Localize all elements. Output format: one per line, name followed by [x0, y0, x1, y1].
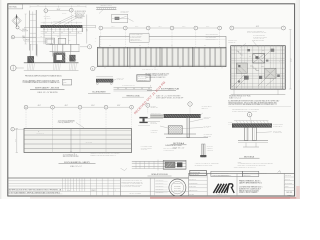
- svg-text:SEE NOTE 4 THIS SHT: SEE NOTE 4 THIS SHT: [130, 40, 141, 42]
- roof elevation bottom ticks: [104, 67, 106, 69]
- roof plan rectangle: [99, 36, 226, 47]
- keynote box: [62, 79, 71, 85]
- section BB base: [238, 140, 268, 142]
- svg-text:1 REV PER CITY: 1 REV PER CITY: [156, 192, 164, 194]
- canopy left vert dim: [25, 14, 27, 44]
- svg-text:D: D: [105, 107, 106, 109]
- svg-text:EQ: EQ: [109, 45, 111, 47]
- svg-text:SEE CIVIL FOR SITE INFO: SEE CIVIL FOR SITE INFO: [63, 156, 79, 158]
- revision grid: [61, 178, 63, 191]
- posts under beam: [43, 28, 45, 45]
- right plan below lines: [233, 89, 235, 94]
- svg-text:COLUMN: COLUMN: [204, 118, 210, 120]
- svg-text:B: B: [249, 114, 250, 116]
- logo diagonal bars: [213, 184, 229, 193]
- roof elevation joist lines: [101, 48, 103, 67]
- svg-text:12 OF 24: 12 OF 24: [287, 195, 292, 197]
- svg-text:FILE S21: FILE S21: [189, 193, 194, 195]
- footing block right: [70, 55, 76, 61]
- wire leader from bubble A: [15, 36, 37, 38]
- grade bubble: [10, 65, 16, 71]
- scan edge bottom pink tint: [30, 197, 150, 198]
- svg-text:(E) 4x12 DF: (E) 4x12 DF: [44, 16, 51, 18]
- vertical dim right of canopy: [86, 15, 88, 44]
- svg-text:EQ: EQ: [204, 45, 206, 47]
- svg-text:SIM: SIM: [69, 40, 71, 42]
- logo R stroke: [227, 184, 234, 193]
- svg-text:ROOF FRAMING PLAN: ROOF FRAMING PLAN: [161, 88, 180, 91]
- canopy detail dim bubbles: [44, 9, 48, 13]
- leader diagonal: [52, 15, 74, 25]
- jamb vertical element: [202, 144, 203, 157]
- approval header box: [211, 171, 243, 176]
- canopy second dim row: [30, 6, 86, 8]
- small mark under title: [121, 168, 125, 170]
- canopy extra horizontals left: [24, 37, 46, 39]
- designer column: [188, 173, 190, 196]
- svg-text:CHECKED RJM: CHECKED RJM: [189, 182, 197, 184]
- south elev grid stems: [25, 109, 27, 128]
- grid bubble left A: [11, 36, 14, 39]
- grade line: [24, 62, 79, 64]
- pe seal inner: [171, 181, 184, 194]
- section BB hatch above beam: [236, 121, 238, 124]
- scan edge right: [296, 0, 300, 199]
- schedule mini box above seal: [190, 170, 207, 175]
- svg-text:40'-0": 40'-0": [117, 105, 121, 107]
- svg-text:▽: ▽: [38, 131, 39, 133]
- section BB bubble: [247, 112, 252, 117]
- left column pair: [29, 11, 31, 51]
- south elev dim line: [28, 106, 50, 108]
- svg-text:40'-0": 40'-0": [65, 105, 69, 107]
- right plan extra diagonals: [262, 51, 270, 59]
- right plan leaders: [252, 40, 258, 47]
- lower beam grid: [50, 43, 80, 45]
- svg-text:HSS: HSS: [237, 51, 239, 53]
- title strip rows left: [8, 180, 121, 182]
- disclaimer box: [119, 178, 121, 196]
- border frame: [8, 4, 295, 196]
- svg-text:1 REV PER CITY: 1 REV PER CITY: [156, 180, 164, 182]
- right plan diagonals: [232, 75, 244, 87]
- section AA roof beam: [164, 114, 201, 118]
- right plan dark cells: [253, 54, 265, 63]
- svg-text:3x SHIM: 3x SHIM: [62, 12, 66, 14]
- svg-text:24'-0": 24'-0": [291, 58, 293, 62]
- proj header cells: [258, 171, 260, 176]
- svg-text:EQ: EQ: [139, 45, 141, 47]
- right plan vert dim: [289, 30, 291, 90]
- north arrow diamond: [12, 16, 22, 26]
- svg-text:1/4:12: 1/4:12: [228, 124, 232, 126]
- clutter under beam: [44, 29, 77, 31]
- sill detail hatched bar: [96, 79, 113, 82]
- south elev left end bubble: [11, 127, 15, 131]
- edge detail bars: [132, 160, 186, 162]
- title strip top line left: [8, 177, 189, 179]
- svg-text:SOUTH ELEVATION - CANOPY: SOUTH ELEVATION - CANOPY: [64, 161, 91, 164]
- section AA post: [187, 118, 190, 138]
- svg-text:TYP: TYP: [262, 50, 264, 52]
- footing block mid: [54, 53, 65, 63]
- svg-text:6: 6: [231, 28, 232, 30]
- stair step marks: [250, 66, 259, 70]
- logo cell: [206, 173, 208, 196]
- clip detail: [112, 14, 128, 22]
- svg-text:PROJ 16-224: PROJ 16-224: [285, 175, 292, 177]
- roof plan dim line: [103, 27, 124, 29]
- beam end post: [81, 25, 83, 32]
- section AA base lines: [164, 133, 196, 135]
- svg-text:TYP: TYP: [57, 36, 59, 38]
- svg-text:ENGINEER: ENGINEER: [174, 185, 180, 187]
- svg-text:DESIGNED RJM: DESIGNED RJM: [189, 175, 198, 177]
- footing columns: [29, 44, 31, 57]
- corner label box: [8, 4, 22, 9]
- grid stems dashed: [45, 13, 47, 28]
- beam right extension: [82, 25, 95, 27]
- narrow column: [154, 178, 156, 196]
- svg-text:SEE SCHEDULE ON SHEET S1.1: SEE SCHEDULE ON SHEET S1.1: [145, 77, 165, 79]
- flashing detail top: [96, 6, 116, 8]
- revision rows left of seal: [155, 180, 167, 182]
- section BB footing marks: [245, 143, 247, 147]
- roof elevation hatched band: [98, 47, 227, 66]
- svg-text:NORTH CANOPY - SECTION: NORTH CANOPY - SECTION: [35, 86, 60, 89]
- south elev body: [24, 129, 132, 153]
- sheet background: [0, 0, 300, 199]
- received stamp red: [133, 80, 166, 115]
- svg-text:40'-0": 40'-0": [38, 105, 42, 107]
- svg-text:1 REV PER CITY: 1 REV PER CITY: [156, 186, 164, 188]
- north arrow shaft: [16, 14, 18, 27]
- mid equipment boxes: [46, 38, 55, 44]
- threshold detail: [114, 87, 153, 89]
- right plan bubbles: [230, 26, 234, 30]
- svg-text:1 REV PER CITY: 1 REV PER CITY: [156, 189, 164, 191]
- section AA footing crosshatch: [168, 126, 182, 134]
- south elev left dim: [16, 129, 18, 153]
- svg-text:(E) STOREFRONT SILL: (E) STOREFRONT SILL: [122, 85, 135, 87]
- canopy extra framing lines: [41, 31, 82, 33]
- canopy dim ticks above beam: [41, 22, 82, 24]
- edge detail left verticals: [135, 161, 137, 168]
- svg-text:SEE SCHED: SEE SCHED: [204, 135, 211, 137]
- right plan body: [231, 46, 286, 89]
- edge detail box: [163, 160, 186, 169]
- detail bubble right: [88, 45, 92, 49]
- sheet number cell: [283, 173, 285, 196]
- footing under-grade hatch: [26, 63, 29, 70]
- ibeam dark section: [139, 117, 147, 119]
- svg-text:2: 2: [45, 10, 46, 12]
- svg-text:B: B: [52, 107, 53, 109]
- svg-text:OPP: OPP: [22, 37, 25, 39]
- svg-text:C: C: [79, 107, 80, 109]
- svg-text:F: F: [147, 105, 148, 107]
- tiny rev triangle: [278, 171, 280, 173]
- svg-text:40'-0": 40'-0": [91, 105, 95, 107]
- keynotes bordered box: [137, 75, 150, 82]
- svg-text:SHEET: SHEET: [285, 186, 289, 188]
- svg-text:1 REV PER CITY: 1 REV PER CITY: [156, 183, 164, 185]
- svg-text:24'-0": 24'-0": [57, 9, 61, 11]
- pilaster bubble: [146, 103, 150, 107]
- svg-text:PERMIT B-2241: PERMIT B-2241: [243, 175, 251, 177]
- roof plan note box 1: [130, 34, 150, 43]
- svg-text:F.F. EL 100'-0": F.F. EL 100'-0": [37, 133, 45, 135]
- footing block left: [28, 56, 34, 62]
- north arrow circle: [16, 26, 19, 29]
- canopy extra leaders: [58, 16, 76, 24]
- date header cells: [243, 171, 259, 176]
- svg-text:W8x24: W8x24: [261, 66, 265, 68]
- svg-text:22617: 22617: [91, 190, 95, 192]
- svg-text:ROOFING INFO: ROOFING INFO: [138, 79, 146, 81]
- svg-text:TYP: TYP: [243, 83, 245, 85]
- svg-text:64'-0": 64'-0": [256, 26, 260, 28]
- south elev bubbles: [24, 105, 28, 109]
- svg-text:S 2.1.1: S 2.1.1: [287, 192, 293, 194]
- elev end bubble: [91, 66, 95, 70]
- section BB leader: [250, 117, 252, 123]
- svg-text:3: 3: [71, 10, 72, 12]
- canopy main beam hatched: [41, 25, 82, 27]
- section BB beam: [232, 124, 272, 128]
- section AA bubble: [188, 102, 192, 106]
- svg-text:JOB NO 16-224: JOB NO 16-224: [189, 190, 197, 192]
- dim line 24ft: [48, 10, 70, 12]
- svg-text:4x4 POST: 4x4 POST: [23, 39, 29, 41]
- scan edge left: [0, 0, 1, 199]
- svg-text:CONSTRUCTION TYP: CONSTRUCTION TYP: [206, 39, 218, 41]
- svg-text:EQ: EQ: [171, 45, 173, 47]
- svg-text:5: 5: [89, 47, 90, 49]
- svg-text:No. C45217: No. C45217: [174, 188, 181, 190]
- svg-text:T.O. FOOTING EL 97'-6": T.O. FOOTING EL 97'-6": [63, 154, 78, 156]
- section BB posts: [244, 127, 248, 140]
- pe seal outer: [169, 179, 186, 196]
- roof plan grid bubbles: [99, 26, 103, 30]
- ibeam extension lines: [148, 117, 163, 119]
- svg-text:E: E: [131, 107, 132, 109]
- svg-text:SECTION A-A: SECTION A-A: [173, 142, 185, 145]
